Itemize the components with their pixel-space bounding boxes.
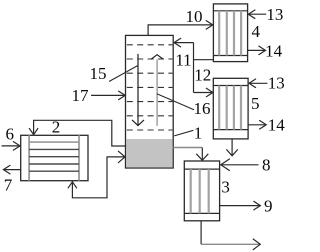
svg-text:6: 6 xyxy=(6,125,15,144)
svg-text:14: 14 xyxy=(268,116,286,135)
svg-text:2: 2 xyxy=(52,118,61,137)
svg-text:13: 13 xyxy=(266,5,283,24)
svg-text:15: 15 xyxy=(90,64,107,83)
svg-text:9: 9 xyxy=(264,197,273,216)
svg-text:5: 5 xyxy=(251,94,260,113)
svg-text:13: 13 xyxy=(268,73,285,92)
svg-text:17: 17 xyxy=(72,86,90,105)
svg-text:1: 1 xyxy=(194,124,203,143)
svg-text:16: 16 xyxy=(194,99,211,118)
svg-text:12: 12 xyxy=(194,66,211,85)
svg-text:10: 10 xyxy=(186,7,203,26)
svg-text:4: 4 xyxy=(252,22,261,41)
svg-text:7: 7 xyxy=(4,176,13,195)
svg-text:8: 8 xyxy=(262,155,271,174)
svg-text:3: 3 xyxy=(221,178,230,197)
svg-text:14: 14 xyxy=(265,41,283,60)
svg-text:11: 11 xyxy=(175,51,191,70)
